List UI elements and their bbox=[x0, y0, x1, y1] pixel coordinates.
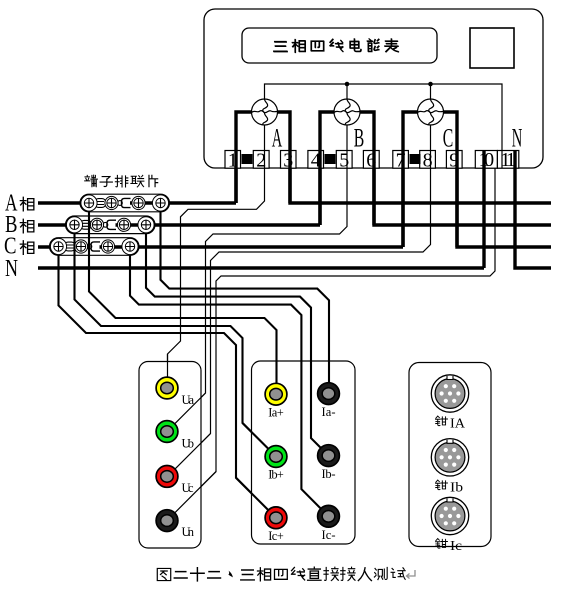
svg-text:2: 2 bbox=[256, 150, 266, 172]
screw terminal B3 bbox=[117, 218, 130, 231]
banana terminal Ic- bbox=[318, 505, 340, 527]
svg-text:1: 1 bbox=[228, 150, 238, 172]
DIN connector clampB bbox=[431, 439, 468, 476]
caption 图二十二、三相四线直接接入测试 bbox=[157, 568, 170, 580]
svg-text:Ia-: Ia- bbox=[322, 405, 336, 419]
svg-text:11: 11 bbox=[500, 149, 515, 171]
svg-text:B: B bbox=[354, 123, 365, 153]
svg-text:Ua: Ua bbox=[182, 393, 195, 407]
banana terminal Ib- bbox=[318, 445, 340, 467]
wire T10 below box to N bus bbox=[482, 151, 485, 269]
phase B thick current loop wire bbox=[320, 112, 374, 225]
clamp labels bbox=[436, 416, 448, 426]
DIN connector clampA bbox=[431, 375, 468, 412]
current wire A strip left to Ia+ bbox=[89, 211, 277, 384]
screw terminal C1 bbox=[50, 238, 66, 254]
screw terminal A3 bbox=[132, 196, 145, 209]
thin wires through boxes bbox=[265, 151, 503, 169]
svg-text:10: 10 bbox=[479, 149, 495, 171]
svg-text:Uc: Uc bbox=[182, 481, 194, 495]
svg-text:IA: IA bbox=[450, 416, 465, 431]
N bus line bbox=[38, 266, 484, 269]
phase C thick current loop wire bbox=[403, 112, 457, 247]
svg-text:C: C bbox=[443, 123, 454, 153]
wire T1 below box to A bus bbox=[234, 151, 237, 204]
current wire A strip right to Ia- bbox=[161, 211, 330, 384]
wire tails into voltage terminals bbox=[168, 354, 217, 513]
svg-text:Ic-: Ic- bbox=[322, 528, 336, 542]
terminal strip A (stadium) bbox=[80, 194, 170, 212]
screw terminal B2 bbox=[90, 218, 103, 231]
svg-text:A: A bbox=[272, 123, 283, 153]
meter top-right square bbox=[470, 28, 514, 68]
wire T3 below box, A phase output to right edge bbox=[290, 151, 551, 204]
screw terminal C2 bbox=[74, 240, 87, 253]
banana terminal Ub bbox=[156, 421, 178, 443]
screw terminal C3 bbox=[101, 240, 114, 253]
screw terminal A1 bbox=[81, 195, 97, 211]
wire T9 below box, C phase output bbox=[457, 151, 551, 248]
svg-text:Ib: Ib bbox=[450, 480, 463, 495]
shorting link 4-5 bbox=[325, 154, 336, 164]
voltage wire T8 to Uc (thin) bbox=[174, 125, 430, 470]
svg-text:Ia+: Ia+ bbox=[268, 406, 284, 420]
svg-text:Ic: Ic bbox=[450, 538, 462, 553]
svg-text:N: N bbox=[5, 256, 18, 282]
phase A thick current loop wire bbox=[236, 112, 290, 203]
junction dot node C bbox=[428, 82, 433, 87]
svg-text:3: 3 bbox=[283, 150, 293, 172]
terminal strip C (stadium) bbox=[50, 238, 140, 256]
wire T6 below box, B phase output bbox=[374, 151, 551, 226]
svg-text:9: 9 bbox=[449, 150, 459, 172]
banana terminal Ua bbox=[156, 377, 178, 399]
svg-text:6: 6 bbox=[366, 150, 376, 172]
banana terminal Uc bbox=[156, 466, 178, 488]
voltage wire T5 to Ub (thin) bbox=[174, 125, 347, 424]
current wire C strip right to Ic- bbox=[130, 255, 321, 509]
screw terminal B4 bbox=[138, 217, 154, 233]
terminal row boxes 1-11 bbox=[225, 151, 519, 169]
meter body U1 bbox=[204, 9, 543, 168]
A phase bus line bbox=[38, 201, 236, 204]
junction dot node B bbox=[345, 82, 350, 87]
shorting link 1-2 bbox=[242, 154, 253, 164]
return mark bbox=[407, 570, 416, 579]
current wire B strip left to Ib+ bbox=[75, 233, 269, 449]
B phase bus line bbox=[38, 223, 320, 226]
wire T11 below box, N output bbox=[515, 151, 551, 269]
banana terminal Ic+ bbox=[265, 507, 287, 529]
shorting link 7-8 bbox=[410, 154, 421, 164]
banana terminal Ia- bbox=[318, 383, 340, 405]
svg-text:4: 4 bbox=[311, 150, 321, 172]
meter label text 三相四线电能表 bbox=[274, 39, 399, 53]
C phase bus line bbox=[38, 245, 403, 248]
current tester panel bbox=[252, 361, 356, 544]
voltage wire T11 to Un (thin) bbox=[174, 168, 495, 513]
svg-text:8: 8 bbox=[423, 150, 433, 172]
clamp panel bbox=[409, 363, 491, 547]
svg-text:7: 7 bbox=[396, 150, 406, 172]
terminal strip B (stadium) bbox=[66, 216, 156, 234]
meter element circle A bbox=[252, 99, 278, 125]
banana terminal Ib+ bbox=[265, 446, 287, 468]
label 端子排联片 bbox=[85, 175, 158, 187]
wire T4 below box to B bus bbox=[318, 151, 321, 226]
svg-text:Ib+: Ib+ bbox=[268, 468, 284, 482]
screw terminal A2 bbox=[105, 196, 118, 209]
svg-text:N: N bbox=[512, 123, 523, 153]
wire T7 below box to C bus bbox=[401, 151, 404, 248]
svg-text:5: 5 bbox=[339, 150, 349, 172]
voltage tester panel bbox=[139, 362, 201, 549]
banana terminal Un bbox=[156, 510, 178, 532]
terminal labels bbox=[182, 393, 336, 543]
top voltage bus inside meter bbox=[265, 84, 503, 150]
meter element circle B bbox=[334, 99, 360, 125]
current wire C strip left to Ic+ bbox=[59, 255, 269, 511]
screw terminal B1 bbox=[66, 217, 82, 233]
svg-text:Un: Un bbox=[182, 525, 195, 539]
banana terminal Ia+ bbox=[265, 383, 287, 405]
terminal digits bbox=[228, 149, 516, 172]
svg-text:Ub: Ub bbox=[182, 437, 195, 451]
current wire B strip right to Ib- bbox=[146, 233, 321, 448]
svg-text:Ic+: Ic+ bbox=[268, 529, 284, 543]
screw terminal A4 bbox=[152, 195, 168, 211]
meter label box bbox=[242, 28, 437, 63]
screw terminal C4 bbox=[122, 238, 138, 254]
voltage wire T2 to Ua (thin) bbox=[168, 125, 265, 378]
DIN connector clampC bbox=[431, 497, 468, 534]
meter element circle C bbox=[418, 99, 444, 125]
svg-text:Ib-: Ib- bbox=[322, 467, 336, 481]
